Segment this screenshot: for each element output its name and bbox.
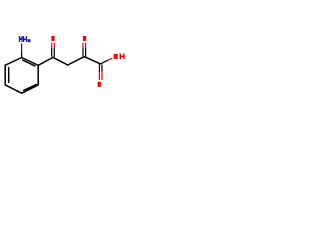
amine bond N-C2, blue half xyxy=(21,43,23,50)
aromatic inner bond, top-right edge xyxy=(23,60,35,66)
double bond C10=O3, red halves xyxy=(99,72,102,80)
label NH2: H glyph xyxy=(23,36,27,42)
bond C8-C9 xyxy=(68,57,85,65)
bond C10-O4, red half xyxy=(108,58,112,60)
bond C10-O4, black half xyxy=(100,60,108,64)
label H of OH xyxy=(120,54,125,60)
double bond C7=O1, black halves xyxy=(52,48,55,57)
aromatic inner bond, left edge xyxy=(8,68,10,83)
amine bond N-C2, black half xyxy=(21,50,23,57)
label O2 (ketone oxygen) xyxy=(83,36,86,41)
double bond C10=O3, black halves xyxy=(99,64,102,72)
label O4 (hydroxyl O) xyxy=(114,54,118,59)
label NH2: subscript 2 xyxy=(28,39,31,42)
aromatic inner bond, bottom-right edge xyxy=(24,85,37,91)
bond C1-C7 xyxy=(38,57,53,65)
double bond C9=O2, black halves xyxy=(83,48,86,57)
double bond C9=O2, red halves xyxy=(83,43,86,48)
benzene ring xyxy=(5,58,38,94)
label NH2: N glyph xyxy=(19,36,23,42)
bond C9-C10 xyxy=(84,57,100,64)
label O3 (carboxyl double-bond O) xyxy=(98,82,101,87)
double bond C7=O1, red halves xyxy=(52,43,55,48)
label O1 (ketone oxygen) xyxy=(51,36,54,41)
bond C7-C8 xyxy=(53,57,68,65)
